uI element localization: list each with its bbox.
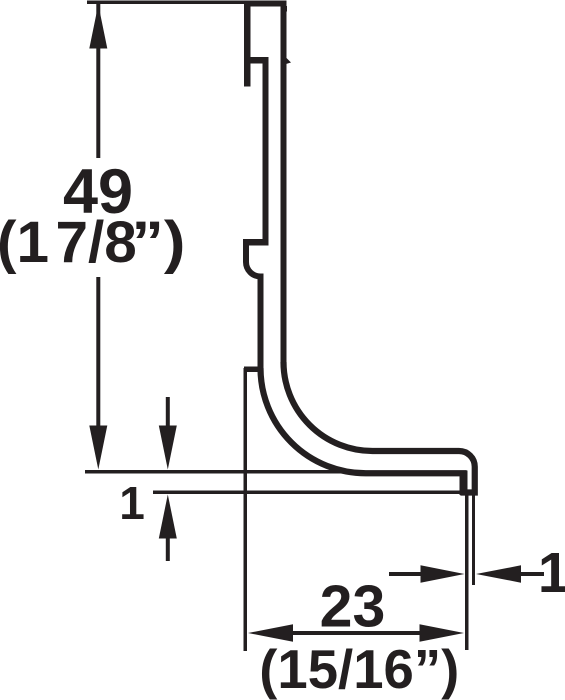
- extension line top horizontal: [87, 1, 245, 5]
- dim 49 shaft upper: [96, 4, 100, 158]
- lip left face thickening: [460, 471, 468, 496]
- profile jog left face and elbow into lower stem wall: [246, 239, 261, 368]
- profile shelf step: [244, 57, 269, 64]
- dim 23 arrowhead right: [420, 624, 465, 641]
- profile cap end tab: [285, 6, 288, 12]
- extension line vertical below lip slit right: [472, 495, 475, 585]
- svg-text:7/8: 7/8: [56, 210, 137, 275]
- dim 49 arrowhead up: [89, 5, 107, 49]
- dim 1 right arrowhead pointing right: [421, 565, 465, 582]
- extension line flange bottom level: [85, 470, 360, 474]
- profile bend and flange with end lip: outer curve, flange bottom, lip, flange top, inner curve: [261, 362, 475, 493]
- dim 23 arrowhead left: [248, 624, 293, 641]
- svg-text:(1: (1: [0, 210, 49, 275]
- profile extension foot at curve start: [244, 367, 260, 373]
- profile right nub: [286, 58, 291, 65]
- profile tube left wall: [244, 1, 251, 87]
- profile stem left wall upper from shelf: [263, 57, 269, 242]
- svg-text:(15/16”): (15/16”): [259, 639, 459, 700]
- dim 1 left arrowhead up: [159, 495, 177, 539]
- svg-text:1: 1: [538, 541, 565, 605]
- dim 1 right left shaft: [389, 572, 422, 576]
- dim 49 arrowhead down: [89, 426, 107, 470]
- svg-text:23: 23: [320, 574, 386, 640]
- dim 1 left upper shaft: [166, 397, 170, 427]
- profile tube top cap: [244, 1, 287, 7]
- dim 1 left arrowhead down: [159, 426, 177, 470]
- profile jog step upper: [243, 239, 269, 246]
- svg-text:1: 1: [119, 477, 145, 529]
- dim 49 shaft lower: [96, 277, 100, 427]
- extension line vertical below lip slit left: [465, 495, 469, 650]
- extension line vertical left of curve for 23 dim: [244, 368, 248, 651]
- dim 23 shaft: [292, 631, 421, 635]
- svg-text:”): ”): [132, 210, 186, 275]
- dim 1 right arrowhead pointing left: [476, 565, 521, 582]
- profile right wall: [281, 1, 287, 363]
- extension line lip bottom level: [153, 491, 460, 495]
- dim 1 left lower shaft: [166, 537, 170, 561]
- dim 1 right right shaft: [520, 572, 544, 576]
